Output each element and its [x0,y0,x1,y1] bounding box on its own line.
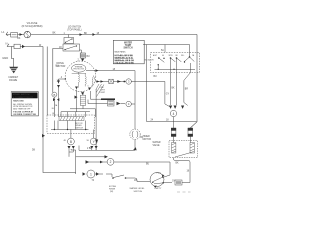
svg-text:BR: BR [185,89,189,91]
svg-text:2: 2 [110,160,112,164]
label WATER VALVE [153,141,161,147]
motor speed switch dashed box [47,115,95,133]
svg-text:& CONNECTOR KIT: & CONNECTOR KIT [13,97,34,99]
svg-text:PROTECTOR: PROTECTOR [73,69,84,71]
chain2 connector circle [126,101,131,106]
svg-text:2 BK: 2 BK [87,148,92,150]
label TIMER MOTOR [143,136,152,141]
motor internal windings [72,72,93,88]
svg-text:UM WIRE CONNECT BK: UM WIRE CONNECT BK [13,114,36,116]
svg-text:MAIN PANEL: MAIN PANEL [115,51,126,54]
arrow on wire A [96,69,99,72]
connector circle F below speed switch right [90,138,97,145]
svg-text:BK: BK [53,33,57,35]
svg-text:CABINET: CABINET [8,76,19,79]
timer internal bus [155,69,196,70]
bus A to timer motor [79,149,135,151]
connector arrows on motor-left drop [57,81,60,88]
svg-text:AND TIMER IN OFF: AND TIMER IN OFF [13,108,31,111]
bold terminal bar [101,98,115,100]
svg-text:24: 24 [151,119,154,121]
connector arrow on L1 [20,33,23,36]
svg-text:BU, AL,OR: BU, AL,OR [145,59,154,62]
svg-text:P.M.USE COPPER AT: P.M.USE COPPER AT [13,111,34,114]
svg-text:1: 1 [90,172,92,176]
svg-text:SPIN: SPIN [169,55,174,57]
connector circle D on rail2 [52,92,57,97]
svg-text:(IF SO EQUIPPED): (IF SO EQUIPPED) [22,25,43,28]
chain2 wire to timer motor line [131,103,135,105]
svg-text:BU: BU [87,56,91,58]
extra rinse switch [106,174,131,179]
label LID SWITCH (TOP PANEL) [67,27,81,32]
ground drop wire [12,47,14,68]
wire timer motor bottom to bus A [134,140,136,151]
wire from circle E down to bus [69,149,73,157]
svg-text:(W): (W) [110,191,114,193]
lid switch contact box lower [63,44,80,51]
chain1 pins from motor bottom right [96,81,109,83]
timer motor dashed circle [130,129,140,139]
temp switch contact rows [115,55,135,65]
svg-text:BK: BK [176,163,180,165]
wire bundle vertical x96.6 [95,89,97,150]
chain1 connector circle 3 [126,79,131,84]
thermal protector oval [72,64,86,72]
svg-text:18: 18 [187,171,190,173]
bottom line y162 with circle 2 [86,162,171,175]
valve coil right hatched [190,143,194,154]
valve output wire [174,158,191,183]
inline component on valve return [175,180,182,185]
wire motor right-bottom pin to bar [91,91,102,99]
svg-text:BK: BK [140,137,144,139]
noise filter box on L1 [11,33,21,40]
svg-text:4: 4 [173,112,175,116]
timer box output drops [171,58,191,105]
connector circle E below speed switch left [68,138,75,145]
svg-text:B: B [53,93,55,97]
label WATER LEVEL SWITCH [130,187,146,193]
svg-text:N: N [6,42,8,46]
svg-text:LID SWITCH: LID SWITCH [68,27,82,29]
notes box with inverted header [11,92,38,117]
timer contact labels [153,54,195,57]
chain1 junction dot [123,81,125,83]
chain1 connector X box [109,79,114,83]
svg-text:D8: D8 [32,150,36,152]
timer contact 1 [158,57,165,69]
start capacitor below motor [80,95,85,105]
svg-text:5B: 5B [87,140,90,142]
connector triangles below circle E [68,146,75,149]
arrow at left end of y162 line [86,160,90,163]
valve coil left hatched [172,143,176,154]
wire H1 main hot line L1 [6,34,197,36]
svg-text:FILL: FILL [181,55,184,57]
chain1 wire to right rail [131,82,169,107]
motor internal bottom connector arrows [75,87,91,91]
wire circle 4b to left solenoid [173,117,175,128]
wire component to valve drop [182,182,190,184]
chain2 connector triangle [117,102,121,106]
junction arrow on bus A at timer [133,147,136,150]
connector circle on L1 [24,31,31,38]
motor left terminal wire label 4 [59,77,67,84]
svg-text:GY: GY [166,94,170,96]
wire rail mid parallel [46,47,48,116]
wire rail2 below circle B [53,97,55,117]
drop from speed switch to circle 2 [93,130,95,139]
svg-text:64: 64 [162,55,164,57]
speed switch hatched body [59,117,84,121]
svg-text:WATER LEVEL: WATER LEVEL [130,187,146,190]
svg-text:2A: 2A [192,54,195,57]
tiny wire labels bottom right [177,191,191,193]
connector diamond on wire [96,172,99,175]
connector diamond before circle 1 [83,172,86,175]
wire lid switch to motor top [80,50,82,53]
connector triangles above circle 4b [169,106,184,109]
svg-text:COLD=AL+PK W PK: COLD=AL+PK W PK [115,62,135,65]
wire from circle F down to bus [92,149,96,150]
svg-text:EMPTY: EMPTY [155,188,163,190]
connector arrow on N [22,45,25,48]
node L1 plug prong [2,30,9,36]
svg-text:B: B [70,140,72,144]
fan wires from temp switch bottom [93,76,104,97]
svg-text:GND: GND [2,56,8,60]
wire vertical x75.6 [75,150,77,174]
svg-text:2A: 2A [55,104,58,107]
bridge wire from temp switch to timer box [143,45,197,122]
wire circle1 to extra rinse switch [95,173,103,175]
wire rinse switch to WL switch [131,178,150,182]
svg-text:SWITCH: SWITCH [123,48,132,50]
water level switch circle [150,173,164,187]
chain2 connector box [108,101,115,107]
timer contact 3 [184,53,195,63]
svg-text:MOTOR: MOTOR [143,139,152,141]
label DRIVE MOTOR [57,62,66,68]
drop from speed switch to circle 1 [70,130,72,139]
connector triangles below circle F [90,146,97,149]
ground chassis symbol [9,67,18,74]
svg-text:(TOP PANEL): (TOP PANEL) [67,29,81,32]
wire WL switch right to valve return [164,182,172,184]
svg-text:BK: BK [172,88,176,90]
triangle marker empty [154,186,157,188]
timer switch dashed box [151,53,200,73]
connector diamonds left of speed switch box [42,134,45,137]
water valve dashed box [169,141,198,158]
arrow on H1 before lid text [80,33,83,36]
valve internal switch arm [175,153,191,158]
connector circle 2 on y162 [107,158,114,165]
svg-text:BU: BU [154,76,158,78]
WL switch internals [152,176,164,184]
water temp switch box [113,40,154,65]
svg-text:BK: BK [17,38,21,40]
wire lid switch left feed [53,49,65,93]
arrow on bundle bottom [95,140,98,143]
svg-text:BK: BK [176,55,179,57]
connector block above motor [78,53,91,61]
wire V right rail from H1 [190,35,197,129]
water valve solenoid left [171,128,176,143]
chain2 wire to circle [121,103,126,105]
svg-text:MAIN GND: MAIN GND [13,100,24,103]
junction tick on H1 [93,33,96,36]
drive motor dashed circle [65,61,96,92]
connector diamond pair below circle D [53,98,59,101]
bus B with end arrow [76,156,105,158]
motor bottom pin drops [77,90,84,112]
svg-text:74: 74 [92,180,95,182]
node N plug prong [6,42,10,47]
connector circle 4b [170,110,176,116]
svg-text:VALVE: VALVE [153,144,161,147]
wire rail1 left neutral rail [43,47,76,173]
svg-text:4B: 4B [64,140,67,142]
wire motor upper right to timer line [86,71,135,129]
lid switch contact box upper [64,38,74,44]
wire H2 neutral [7,46,43,48]
bus under motor [61,109,95,117]
svg-text:WATER: WATER [153,141,161,144]
svg-text:5: 5 [88,86,89,88]
label EXTRA RINSE [109,185,116,193]
chain1 wire with ticks [113,81,126,83]
wire into WL switch full terminal [164,175,170,177]
svg-text:18: 18 [52,113,54,115]
water valve solenoid right [188,128,193,143]
timer contact 2 [170,57,182,62]
svg-text:BU: BU [56,66,60,68]
svg-text:BK: BK [84,33,88,35]
wire motor-left drop to speed switch [58,87,60,117]
svg-text:TIMER: TIMER [143,136,150,138]
wire BR drop from timer box [184,73,191,106]
connector circle 1 on y174 [87,170,95,178]
svg-text:SWITCH: SWITCH [134,191,143,193]
noise filter box on N [14,44,20,48]
svg-text:BU: BU [146,163,150,165]
chain2 wire from bundle [88,103,108,105]
connector arrow into motor top [81,59,84,62]
svg-text:PUMP: PUMP [100,92,106,94]
svg-text:AGIT: AGIT [153,54,157,57]
speed switch internal bus [51,121,89,131]
svg-text:5A: 5A [161,49,164,52]
lid switch drop from H1 [68,35,70,38]
label VIA FUSE [22,22,43,28]
svg-text:L1: L1 [2,30,5,34]
triangle marker full [162,174,165,177]
label MOTOR SPEED SWITCH [75,123,83,130]
svg-text:FRAME: FRAME [9,79,18,82]
label CABINET FRAME [8,76,19,82]
connector arrows above bus [75,92,85,99]
svg-text:4: 4 [61,77,63,79]
wire capacitor to bus [83,105,95,117]
